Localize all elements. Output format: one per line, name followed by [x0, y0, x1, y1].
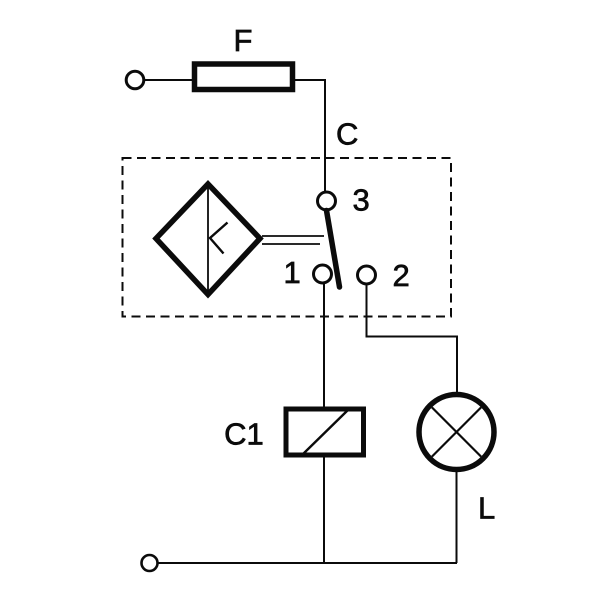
lamp cross stroke 2 — [432, 407, 481, 456]
fuse F — [195, 64, 293, 90]
terminal (bottom ground terminal) — [142, 555, 158, 571]
svg-text:L: L — [478, 491, 495, 526]
wire contact 2 to lamp — [367, 285, 458, 394]
sensor internal divider line — [207, 186, 209, 293]
wire fuse to corner — [292, 80, 325, 192]
svg-text:F: F — [234, 23, 253, 58]
svg-text:2: 2 — [393, 258, 410, 293]
lamp L — [419, 395, 494, 470]
vacuum element (diamond sensor) — [156, 184, 260, 295]
terminal (top-left supply terminal) — [126, 71, 144, 89]
wire contact 1 to C1 — [323, 284, 325, 409]
sensor arrow (K mark) — [210, 223, 228, 254]
wire lamp to ground bus — [456, 470, 458, 564]
contact 3 — [318, 192, 336, 210]
contact 2 — [358, 266, 376, 284]
relay coil C1 — [286, 409, 364, 455]
ground bus wire — [158, 562, 457, 564]
C1 diagonal stroke — [302, 409, 349, 455]
lamp cross stroke 1 — [432, 407, 481, 456]
actuating link (double line) — [262, 235, 324, 237]
svg-text:C: C — [336, 117, 358, 152]
svg-text:C1: C1 — [224, 417, 264, 452]
svg-text:1: 1 — [284, 255, 301, 290]
wire C1 to ground bus — [323, 455, 325, 563]
svg-text:3: 3 — [353, 183, 370, 218]
wire terminal to fuse — [145, 79, 194, 81]
control unit dashed enclosure — [123, 158, 452, 317]
contact 1 — [314, 265, 332, 283]
switch blade — [327, 211, 340, 288]
